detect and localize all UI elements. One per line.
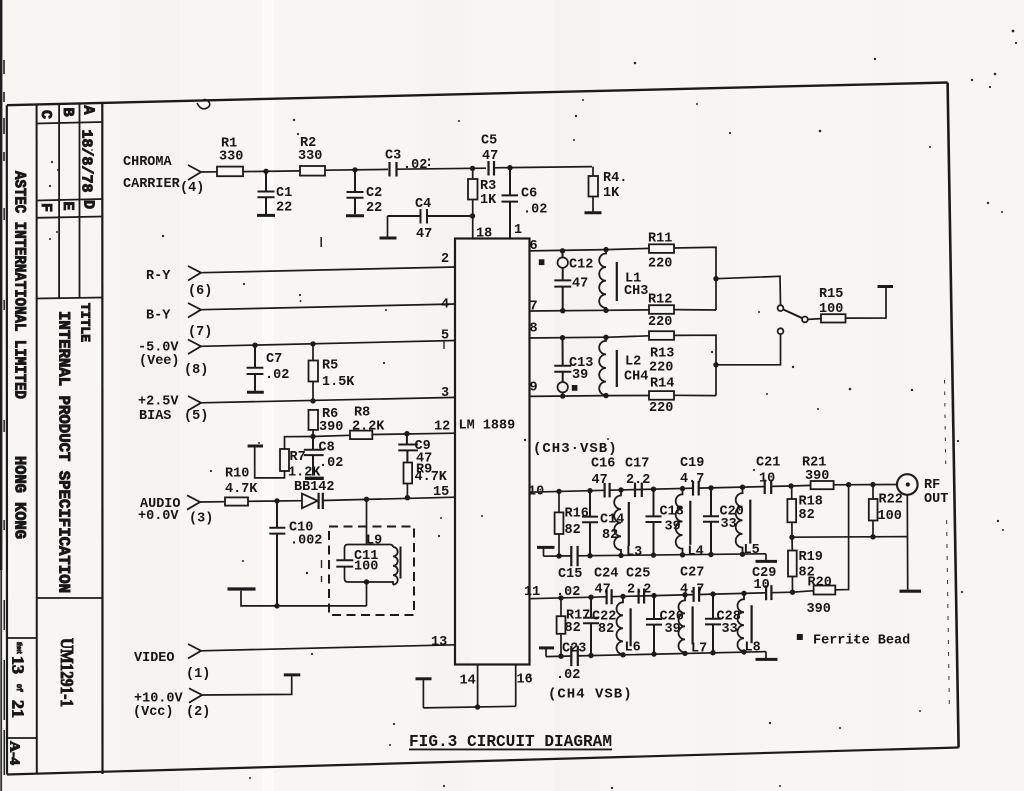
node R5 top [310, 341, 315, 346]
wire Vee to pin 5 [201, 341, 455, 347]
wire R20 riser to R21 node [835, 485, 848, 590]
resistor R9 [404, 463, 413, 484]
titleblock col line B/A [79, 104, 81, 299]
capacitor C1 [258, 171, 275, 214]
capacitor C26 [651, 593, 656, 598]
wire pin 8 rail [530, 336, 607, 339]
wire C5 to C6 node to R4 [494, 167, 592, 168]
capacitor C13 with bead [554, 338, 571, 382]
svg-text:E: E [59, 202, 76, 211]
ground terminal audio net [241, 591, 367, 606]
switch contact lower with wire to tank2 [778, 328, 784, 334]
resistor R17 [558, 595, 563, 600]
svg-text:4.7K: 4.7K [415, 470, 448, 485]
svg-text:16: 16 [517, 673, 533, 688]
svg-text:L6: L6 [625, 641, 641, 656]
rail CH4 junction dots [558, 654, 563, 659]
svg-text:330: 330 [219, 150, 243, 165]
capacitor C17 [635, 483, 642, 498]
input chevron AUDIO [187, 495, 200, 509]
svg-text:R16: R16 [565, 507, 589, 522]
svg-text:(5): (5) [184, 409, 208, 424]
wire pin15 node down to LC loop [366, 499, 368, 544]
inductor L2 core bar [616, 350, 618, 387]
svg-text:R20: R20 [808, 576, 832, 591]
node C7 [252, 343, 257, 348]
node R19 bottom / C29 out [790, 590, 795, 595]
terminal bar R15 [878, 285, 894, 288]
capacitor C27 [694, 587, 700, 602]
wire VIDEO to pin 13 [201, 645, 455, 651]
capacitor C18 [651, 487, 656, 492]
svg-text:+0.0V: +0.0V [138, 509, 179, 524]
input chevron (4) [188, 165, 201, 180]
titleblock right border [101, 103, 103, 774]
wire pin 7 rail [530, 309, 607, 312]
frame right border [948, 83, 959, 748]
svg-text:L9: L9 [366, 534, 382, 549]
input chevron B-Y [188, 303, 201, 318]
resistor R20 [814, 586, 836, 595]
svg-text:12: 12 [434, 420, 450, 435]
svg-text:9: 9 [530, 381, 538, 396]
node C12 top [560, 248, 565, 253]
capacitor C11 [336, 560, 353, 566]
wire LC loop to ground wire [366, 582, 368, 606]
wire R7 bottom to stub terminal [255, 448, 285, 478]
svg-text:5: 5 [441, 329, 449, 344]
svg-text:of: of [14, 684, 23, 692]
capacitor C24 [607, 589, 612, 604]
svg-text:R15: R15 [819, 287, 843, 302]
capacitor C4 in-line [388, 209, 473, 224]
ground bar C8 [305, 477, 324, 480]
svg-text:R11: R11 [648, 232, 672, 247]
titleblock row line below FED [37, 217, 103, 218]
svg-text:VIDEO: VIDEO [134, 651, 175, 666]
op-amp/modulator IC U1 LM1889 body [455, 239, 530, 665]
svg-text:R3: R3 [480, 179, 496, 194]
node R3 top [470, 166, 475, 171]
resistor R2 [300, 166, 325, 176]
svg-text:22: 22 [276, 201, 292, 216]
svg-text:(Vcc): (Vcc) [133, 705, 174, 720]
svg-text:.02: .02 [265, 368, 289, 383]
input chevron Vcc [189, 688, 202, 702]
svg-text:L5: L5 [744, 543, 760, 558]
svg-text:10: 10 [759, 472, 775, 487]
diode BB142 [302, 494, 318, 509]
wire pins 14-16 ground [423, 706, 515, 708]
svg-text:220: 220 [648, 257, 672, 272]
svg-text:R4.: R4. [603, 171, 627, 186]
wire R6 node to R8 [313, 435, 350, 436]
svg-text:82: 82 [799, 508, 815, 523]
svg-text:(CH3·VSB): (CH3·VSB) [533, 441, 618, 457]
svg-text:R12: R12 [648, 293, 672, 308]
svg-text:330: 330 [298, 149, 322, 164]
svg-text:33: 33 [722, 622, 738, 637]
svg-text:390: 390 [805, 469, 829, 484]
wire R12 to right rail [674, 309, 716, 311]
svg-text:(4): (4) [180, 181, 204, 196]
svg-text:C8: C8 [319, 441, 335, 456]
svg-text:(6): (6) [188, 284, 212, 299]
ground terminal rail CH3 left [537, 546, 555, 549]
svg-text:C21: C21 [756, 456, 780, 471]
wire L1 bottom to R12 [606, 309, 649, 311]
capacitor C23 in rail [571, 646, 578, 666]
node C10 bottom [274, 603, 279, 608]
svg-text:C4: C4 [415, 197, 431, 212]
ground terminal rail CH4 left [539, 646, 554, 649]
input chevron VIDEO [188, 644, 201, 659]
svg-text:C17: C17 [625, 457, 649, 472]
RF output connector [897, 474, 918, 495]
wire L2 top to R13 [606, 336, 649, 338]
RF ground stem [906, 495, 908, 590]
svg-text:.02: .02 [556, 668, 580, 683]
svg-text:Sheet: Sheet [14, 642, 22, 654]
node R22 bottom [870, 534, 875, 539]
wire pole to R15 [808, 318, 821, 321]
LC loop top/bottom [348, 545, 390, 583]
svg-text:C2: C2 [366, 186, 382, 201]
inductor L8 [741, 591, 746, 596]
dashed module box L9/C11 [329, 527, 414, 616]
capacitor C21 [765, 480, 772, 495]
input chevron R-Y [188, 266, 201, 281]
svg-text:220: 220 [649, 401, 673, 416]
svg-text:RF: RF [924, 478, 940, 493]
svg-text:4.7K: 4.7K [225, 482, 258, 497]
svg-text:22: 22 [366, 201, 382, 216]
svg-text:CARRIER: CARRIER [123, 177, 181, 192]
svg-text:HONG KONG: HONG KONG [11, 456, 29, 539]
ground terminal rail CH3 right [765, 554, 767, 561]
svg-text:1.2K: 1.2K [288, 466, 321, 481]
svg-text:C12: C12 [569, 258, 593, 273]
svg-text:10: 10 [754, 578, 770, 593]
svg-text:82: 82 [598, 622, 614, 637]
inductor L9 coil [390, 545, 398, 585]
svg-text:L3: L3 [626, 545, 642, 560]
node R9 bottom [405, 495, 410, 500]
resistor R1 [217, 167, 243, 177]
resistor R18 [791, 486, 793, 499]
scan artifact curl at A-column corner [197, 100, 210, 109]
capacitor C25 [639, 589, 645, 604]
svg-text:CH4: CH4 [624, 370, 648, 385]
wire chroma input to R1 [201, 171, 217, 173]
node L2 top [603, 335, 608, 340]
resistor R22 [872, 485, 874, 499]
svg-text:C19: C19 [680, 456, 704, 471]
svg-text:21: 21 [9, 700, 28, 718]
rail CH3 with C15 gap [544, 554, 767, 556]
svg-text:1: 1 [514, 223, 522, 238]
svg-text:39: 39 [665, 520, 681, 535]
inductor L1 [599, 250, 606, 311]
svg-text:.002: .002 [290, 534, 322, 549]
svg-text:R8: R8 [354, 406, 370, 421]
rail CH3 junction dots [556, 553, 561, 558]
frame left border [6, 105, 8, 774]
ferrite bead legend [797, 634, 803, 640]
svg-text:390: 390 [807, 602, 831, 617]
wire diode to pin 15 [323, 497, 455, 500]
capacitor C22 [588, 595, 593, 600]
titleblock row line under CBA [37, 122, 103, 124]
node C13 bottom [560, 393, 565, 398]
titleblock row line top of TITLE cell [37, 298, 103, 299]
svg-text:.02: .02 [403, 158, 427, 173]
capacitor C2 [347, 170, 364, 214]
titleblock row line between sheet and A-4 [7, 737, 37, 739]
resistor R13 [649, 331, 674, 340]
wire R2 to C2 node to C3 [325, 168, 388, 171]
svg-text:L2: L2 [625, 355, 641, 370]
input chevron Vee [188, 340, 201, 355]
svg-text:C24: C24 [594, 567, 618, 582]
svg-text:INTERNAL PRODUCT SPECIFICATION: INTERNAL PRODUCT SPECIFICATION [55, 311, 73, 593]
pin 16 stub [515, 665, 517, 707]
svg-text:82: 82 [565, 621, 581, 636]
svg-text:4.7: 4.7 [680, 472, 704, 487]
capacitor C10 [269, 501, 285, 606]
capacitor C15 in rail [571, 546, 577, 566]
wire R14 to right rail [674, 394, 716, 396]
svg-text:39: 39 [572, 368, 588, 383]
svg-text:CH3: CH3 [624, 284, 648, 299]
capacitor C5 [489, 161, 495, 176]
capacitor C8 [304, 437, 324, 476]
svg-text:33: 33 [721, 517, 737, 532]
resistor R15 [821, 314, 846, 322]
svg-text:.02: .02 [319, 456, 343, 471]
resistor R10 [225, 497, 248, 505]
capacitor C16 [605, 483, 610, 498]
svg-text:220: 220 [648, 315, 672, 330]
svg-text:C16: C16 [591, 457, 615, 472]
svg-text:C27: C27 [680, 566, 704, 581]
svg-text:LM 1889: LM 1889 [459, 419, 516, 434]
wire R1 to C1 node to R2 [243, 170, 300, 173]
ground bar C1 [257, 214, 275, 217]
svg-text:L4: L4 [688, 545, 704, 560]
capacitor C9 [404, 431, 409, 436]
svg-text:8: 8 [530, 322, 538, 337]
node L1 top [603, 247, 608, 252]
small tick marks [320, 237, 322, 247]
wire node to R21 [791, 484, 811, 487]
resistor R16 [556, 489, 561, 494]
wire pin 9 rail [530, 395, 607, 398]
svg-text:(2): (2) [186, 705, 210, 720]
wire R-Y to pin 2 [201, 267, 455, 273]
svg-text:FIG.3 CIRCUIT DIAGRAM: FIG.3 CIRCUIT DIAGRAM [409, 732, 612, 751]
page left edge line [0, 0, 2, 570]
node R18 bottom [789, 535, 794, 540]
svg-text:C23: C23 [562, 642, 586, 657]
resistor R4 vertical [589, 176, 599, 197]
node pin 14 [475, 704, 480, 709]
titleblock col line astec right [36, 105, 38, 775]
svg-text:100: 100 [819, 302, 843, 317]
svg-text:A: A [80, 106, 97, 115]
svg-text:18/8/78: 18/8/78 [78, 130, 95, 193]
node C2 [352, 167, 357, 172]
svg-text:C: C [37, 110, 54, 119]
wire node to R20 [793, 591, 814, 593]
svg-text:(Vee): (Vee) [139, 354, 180, 369]
svg-text:47: 47 [595, 583, 611, 598]
svg-text:2.2K: 2.2K [352, 420, 385, 435]
resistor R6 [309, 410, 319, 430]
resistor R21 [811, 481, 834, 489]
resistor R7 with link to R6 node [285, 437, 314, 450]
svg-text:C1: C1 [276, 186, 292, 201]
resistor R5 [309, 361, 319, 382]
inductor L4 [680, 486, 685, 491]
svg-text:220: 220 [649, 361, 673, 376]
ground bar RF [900, 590, 922, 593]
svg-text:(CH4 VSB): (CH4 VSB) [548, 687, 633, 703]
svg-text:B: B [59, 108, 76, 117]
svg-text:BB142: BB142 [294, 480, 335, 495]
wire R13 to right rail [674, 335, 716, 395]
node tank1 [713, 276, 718, 281]
left edge dashed inner line [3, 60, 5, 775]
svg-text:C6: C6 [521, 187, 537, 202]
capacitor C29 [766, 585, 771, 600]
svg-text:(7): (7) [188, 325, 212, 340]
resistor R11 [649, 244, 674, 253]
ground bar C7 [247, 391, 264, 394]
switch pole contact [802, 317, 808, 323]
svg-text:47: 47 [482, 149, 498, 164]
wire pin 6 to L1 top [530, 250, 607, 251]
switch contact upper [778, 305, 784, 311]
capacitor C19 [693, 481, 699, 496]
ground terminal pins 14-16 [422, 679, 424, 708]
svg-text:(3): (3) [189, 512, 213, 527]
node C10 top [274, 498, 279, 503]
svg-text:ASTEC INTERNATIONAL LIMITED: ASTEC INTERNATIONAL LIMITED [11, 171, 29, 399]
wire B-Y to pin 4 [201, 304, 455, 310]
capacitor C6 vertical [502, 168, 519, 239]
rail CH4 with C23 gap [546, 652, 766, 657]
node C13 top [560, 335, 565, 340]
wire BIAS to pin 3 [201, 397, 455, 402]
svg-text:+2.5V: +2.5V [138, 395, 179, 410]
svg-text:7: 7 [530, 300, 538, 315]
node C6 [507, 165, 512, 170]
svg-text:2.2: 2.2 [627, 583, 651, 598]
node R6 bottom [310, 434, 315, 439]
svg-text:BIAS: BIAS [139, 409, 171, 424]
svg-text:CHROMA: CHROMA [123, 155, 173, 170]
svg-text:C14: C14 [600, 513, 624, 528]
svg-text:B-Y: B-Y [146, 309, 171, 324]
node C21 out [788, 483, 793, 488]
wire audio to R10 [200, 501, 225, 503]
svg-text:C3: C3 [385, 149, 401, 164]
inductor L1 core bar [616, 262, 618, 301]
wire mid rail y537 [792, 536, 908, 539]
switch blade [783, 309, 802, 318]
capacitor C7 [247, 345, 264, 391]
node L9 stem [364, 497, 369, 502]
svg-text:(8): (8) [184, 363, 208, 378]
svg-text:C7: C7 [266, 352, 282, 367]
wire C3 to R3 node [397, 168, 487, 169]
frame bottom border [7, 748, 959, 775]
capacitor C12 with bead [558, 257, 568, 267]
terminal bar above R7 net [248, 445, 263, 448]
titleblock row line top of sheet cell [7, 637, 37, 639]
wire tank1 to switch contact [716, 276, 781, 305]
inductor L6 [620, 594, 625, 599]
frame right inner dashed line [945, 380, 946, 470]
resistor R3 vertical [468, 179, 478, 200]
svg-text:82: 82 [565, 523, 581, 538]
node R20 riser top [846, 482, 851, 487]
svg-text:OUT: OUT [924, 492, 948, 507]
terminal bar Vcc [284, 673, 301, 676]
svg-text:47: 47 [592, 473, 608, 488]
svg-text:(1): (1) [186, 667, 210, 682]
svg-text:1K: 1K [603, 186, 620, 201]
ground terminal rail CH4 right [765, 652, 767, 659]
svg-text:F: F [37, 203, 54, 212]
svg-text:13: 13 [431, 635, 447, 650]
resistor R19 [791, 537, 793, 550]
inductor L3 [618, 487, 623, 492]
wire R10 to diode BB142 [248, 500, 302, 503]
svg-text:390: 390 [319, 420, 343, 435]
svg-text:2.2: 2.2 [626, 473, 650, 488]
wire Vcc to terminal [202, 676, 292, 695]
titleblock col line C/B [58, 104, 60, 299]
svg-text:13: 13 [9, 656, 28, 674]
titleblock row line top of UM cell [37, 597, 103, 599]
titleblock row line above FED [37, 199, 103, 201]
resistor R12 [649, 305, 674, 314]
svg-text:47: 47 [416, 227, 432, 242]
node C12 bottom [560, 308, 565, 313]
svg-text:3: 3 [441, 386, 449, 401]
svg-text:1.5K: 1.5K [322, 375, 355, 390]
svg-text:R19: R19 [799, 550, 823, 565]
wire pin 10 chain [530, 486, 792, 492]
svg-text:R5: R5 [322, 359, 338, 374]
ferrite bead marker C12 [539, 259, 545, 265]
wire pin 11 chain [530, 592, 793, 599]
resistor R14 [649, 391, 674, 400]
inductor L9 core bar [400, 547, 402, 579]
capacitor C28 [710, 591, 715, 596]
ground bar C2 [346, 214, 364, 217]
node LC bottom [364, 579, 369, 584]
ground C4 [387, 216, 389, 237]
wire R8 to pin 12 [372, 433, 455, 434]
svg-text:A-4: A-4 [7, 741, 22, 765]
frame top border [7, 83, 948, 106]
pin 14 stub [477, 665, 479, 708]
node C4/R3/pin18 [470, 213, 475, 218]
svg-text:R10: R10 [225, 467, 249, 482]
